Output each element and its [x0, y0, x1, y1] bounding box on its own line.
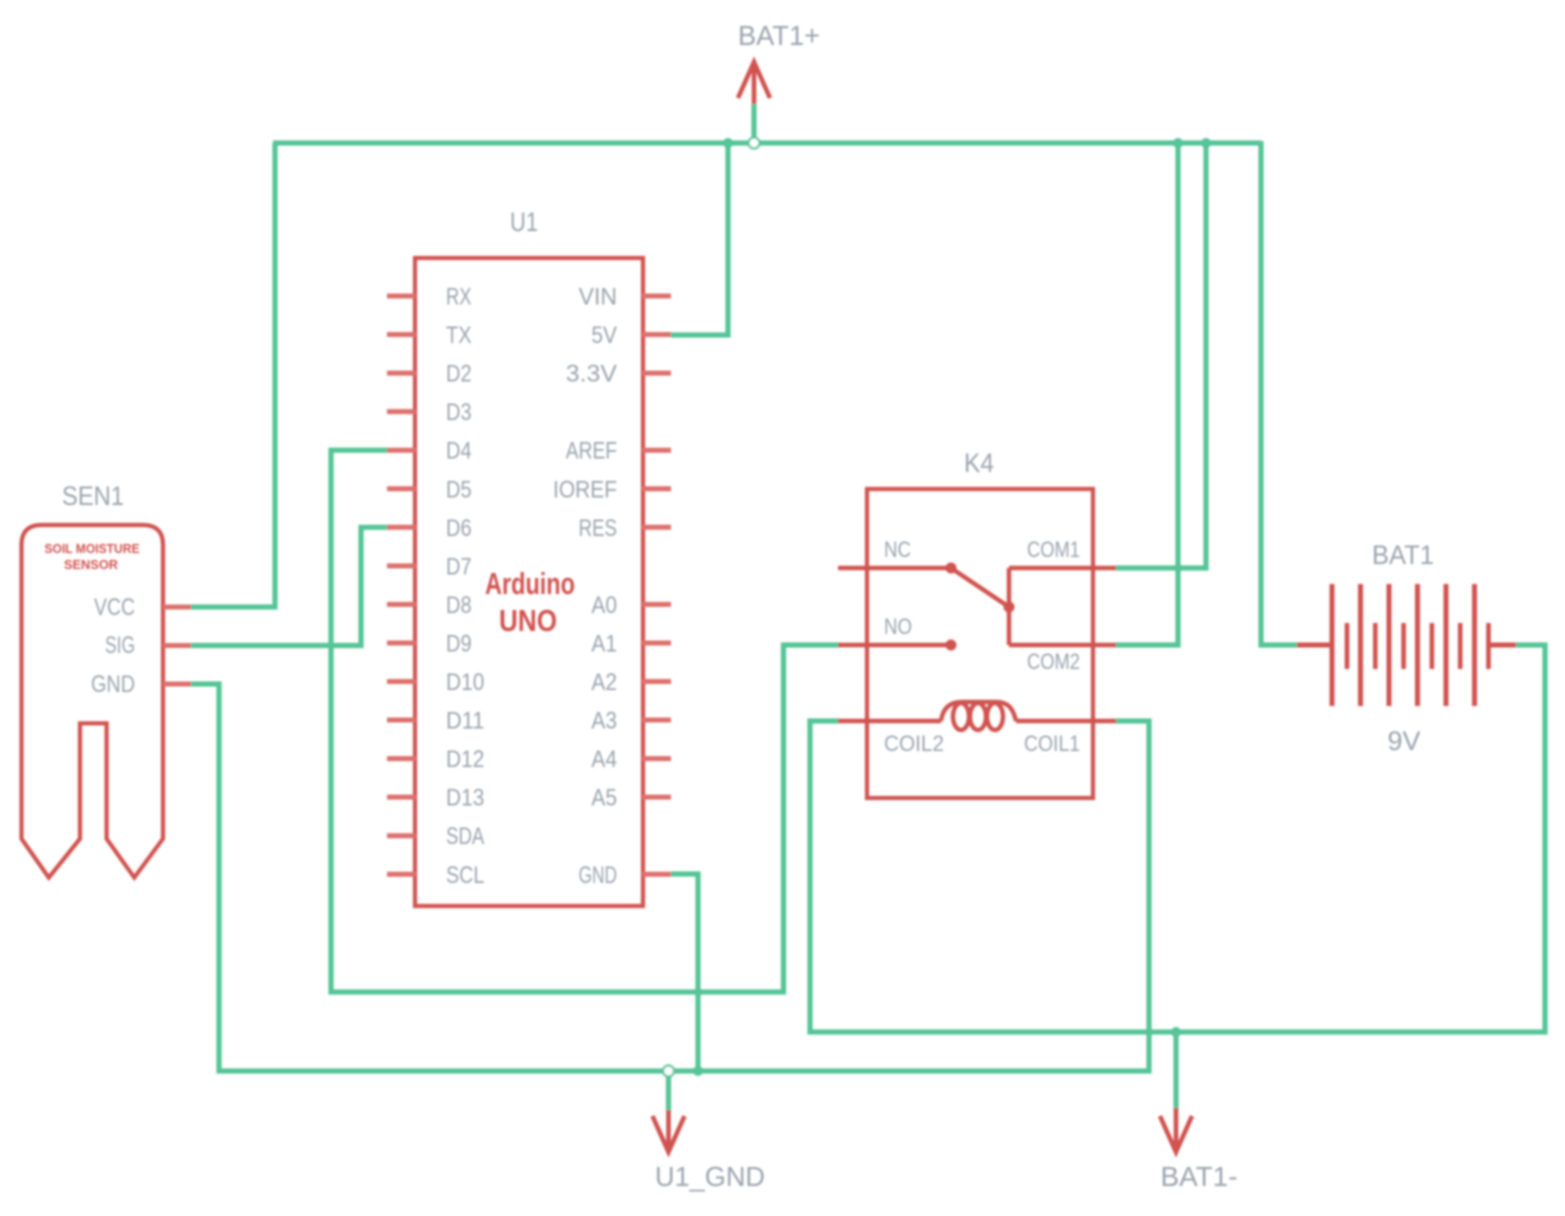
pin SIG stub (SEN1) [163, 643, 191, 648]
battery short plate 1 [1345, 623, 1350, 669]
battery long plate 5 [1444, 584, 1449, 706]
relay common bar [1007, 568, 1011, 645]
svg-text:BAT1-: BAT1- [1161, 1161, 1238, 1192]
pin NO lead [838, 643, 951, 647]
wire U1 5V to rail riser [671, 146, 728, 335]
pin AREF stub [642, 448, 671, 453]
svg-text:A5: A5 [591, 785, 617, 812]
relay armature dot [1004, 602, 1015, 613]
junction COM2 riser on rail [1173, 138, 1183, 148]
svg-text:RX: RX [446, 284, 472, 311]
pin GND stub (SEN1) [163, 682, 191, 687]
svg-text:D5: D5 [446, 476, 472, 503]
pin IOREF stub [642, 486, 671, 491]
inductor coil loop 1 [953, 703, 969, 730]
ic U1 Arduino UNO body [415, 258, 643, 906]
pin D10 stub [387, 679, 416, 684]
svg-text:U1_GND: U1_GND [655, 1161, 765, 1192]
wire BAT1+ port stub [751, 104, 756, 137]
relay contact NO dot [946, 640, 957, 651]
svg-text:D4: D4 [446, 438, 472, 465]
svg-text:D12: D12 [446, 746, 484, 773]
wire rail corner to battery positive [1261, 141, 1297, 645]
battery long plate 4 [1415, 584, 1420, 706]
wire U1 D4 to K4 NO [331, 450, 840, 992]
inductor coil loop 3 [987, 703, 1003, 730]
svg-text:9V: 9V [1388, 726, 1421, 756]
wire U1_GND port stub [666, 1076, 671, 1112]
junction COM1 riser on rail [1201, 138, 1211, 148]
svg-text:GND: GND [91, 671, 135, 698]
pin D11 stub [387, 718, 416, 723]
svg-text:D9: D9 [446, 630, 472, 657]
pin SCL stub [387, 872, 416, 877]
pin D6 stub [387, 525, 416, 530]
pin GND stub [642, 872, 671, 877]
svg-text:VIN: VIN [579, 284, 617, 311]
wire U1 GND down [671, 874, 698, 1071]
pin A3 stub [642, 718, 671, 723]
svg-text:U1: U1 [510, 207, 538, 237]
svg-text:A3: A3 [591, 708, 617, 735]
svg-text:SIG: SIG [105, 632, 135, 659]
svg-text:COIL2: COIL2 [884, 731, 944, 756]
svg-text:A2: A2 [591, 669, 617, 696]
svg-text:D13: D13 [446, 785, 484, 812]
pin A5 stub [642, 795, 671, 800]
svg-text:A0: A0 [591, 592, 617, 619]
svg-text:AREF: AREF [566, 438, 617, 465]
svg-text:D8: D8 [446, 592, 472, 619]
pin COM2 lead [1009, 643, 1116, 647]
svg-text:COM2: COM2 [1027, 649, 1080, 674]
pin D3 stub [387, 409, 416, 414]
pin A1 stub [642, 640, 671, 645]
svg-text:COIL1: COIL1 [1024, 731, 1080, 756]
pin D8 stub [387, 602, 416, 607]
pin D7 stub [387, 563, 416, 568]
pin D4 stub [387, 448, 416, 453]
relay K4 body [867, 489, 1093, 798]
pin D12 stub [387, 756, 416, 761]
svg-text:TX: TX [446, 322, 472, 349]
svg-text:IOREF: IOREF [553, 476, 617, 503]
relay contact NC dot [946, 563, 957, 574]
pin VCC stub (SEN1) [163, 605, 191, 610]
pin NC lead [838, 566, 951, 570]
junction BAT1- on battery rail [1171, 1027, 1181, 1037]
wire rail to K4 COM2 [1115, 146, 1178, 645]
pin VIN stub [642, 294, 671, 299]
svg-text:UNO: UNO [499, 603, 557, 638]
battery long plate 6 [1472, 584, 1477, 706]
power port U1_GND arrow [653, 1110, 685, 1152]
svg-text:SOIL MOISTURE: SOIL MOISTURE [45, 541, 140, 556]
pin 5V stub [642, 332, 671, 337]
svg-text:NO: NO [884, 614, 912, 639]
inductor coil arch [941, 702, 1016, 721]
svg-text:D2: D2 [446, 361, 472, 388]
pin COIL1 lead [1016, 719, 1116, 723]
pin COIL2 lead [838, 719, 941, 723]
battery long plate 3 [1387, 584, 1392, 706]
pin D2 stub [387, 371, 416, 376]
pin D9 stub [387, 640, 416, 645]
svg-text:RES: RES [579, 515, 617, 542]
battery long plate 1 [1330, 584, 1335, 706]
battery short plate 5 [1458, 623, 1463, 669]
pin SDA stub [387, 833, 416, 838]
svg-text:GND: GND [579, 862, 617, 889]
svg-text:VCC: VCC [94, 594, 135, 621]
svg-text:K4: K4 [964, 448, 994, 478]
node BAT1+ port connection ring [749, 138, 760, 149]
power port BAT1- arrow [1160, 1108, 1192, 1152]
sensor SEN1 body outline [22, 525, 164, 878]
wire BAT+ top rail [273, 140, 1261, 145]
svg-text:D7: D7 [446, 553, 472, 580]
svg-text:Arduino: Arduino [485, 566, 575, 601]
svg-text:SDA: SDA [446, 823, 484, 850]
pin TX stub [387, 332, 416, 337]
junction 5V riser on rail [723, 138, 733, 148]
pin COM1 lead [1009, 566, 1116, 570]
inductor coil loop 2 [970, 703, 986, 730]
svg-text:3.3V: 3.3V [566, 361, 617, 388]
pin A4 stub [642, 756, 671, 761]
battery right lead [1487, 643, 1516, 648]
svg-text:BAT1: BAT1 [1372, 540, 1434, 570]
svg-text:D6: D6 [446, 515, 472, 542]
svg-text:SEN1: SEN1 [62, 481, 124, 511]
svg-text:D10: D10 [446, 669, 484, 696]
svg-text:5V: 5V [591, 322, 617, 349]
svg-text:D11: D11 [446, 708, 484, 735]
wire rail to K4 COM1 [1115, 146, 1206, 568]
svg-text:NC: NC [884, 537, 911, 562]
pin RES stub [642, 525, 671, 530]
battery short plate 2 [1373, 623, 1378, 669]
battery left lead [1297, 643, 1334, 648]
svg-text:A1: A1 [591, 630, 617, 657]
svg-text:SCL: SCL [446, 862, 484, 889]
svg-text:BAT1+: BAT1+ [738, 20, 820, 51]
svg-text:A4: A4 [591, 746, 617, 773]
wire SEN1 SIG to U1 D6 [191, 527, 388, 645]
power port BAT1+ arrow [738, 62, 770, 104]
battery short plate 6 [1486, 623, 1491, 669]
junction U1 GND on ground rail [693, 1066, 703, 1076]
battery long plate 2 [1358, 584, 1363, 706]
battery short plate 3 [1401, 623, 1406, 669]
wire SEN1 VCC to BAT+ rail [191, 143, 275, 607]
pin 3.3V stub [642, 371, 671, 376]
wire SEN1 GND to ground rail [191, 684, 1149, 1071]
pin D5 stub [387, 486, 416, 491]
node U1_GND port connection ring [663, 1066, 674, 1077]
relay switch blade [951, 568, 1009, 607]
wire BAT1- port stub [1173, 1032, 1178, 1110]
pin RX stub [387, 294, 416, 299]
svg-text:SENSOR: SENSOR [64, 557, 119, 572]
battery short plate 4 [1430, 623, 1435, 669]
pin A2 stub [642, 679, 671, 684]
pin D13 stub [387, 795, 416, 800]
pin A0 stub [642, 602, 671, 607]
svg-text:COM1: COM1 [1027, 537, 1080, 562]
svg-text:D3: D3 [446, 399, 472, 426]
wire battery negative to COIL2 [810, 645, 1545, 1032]
